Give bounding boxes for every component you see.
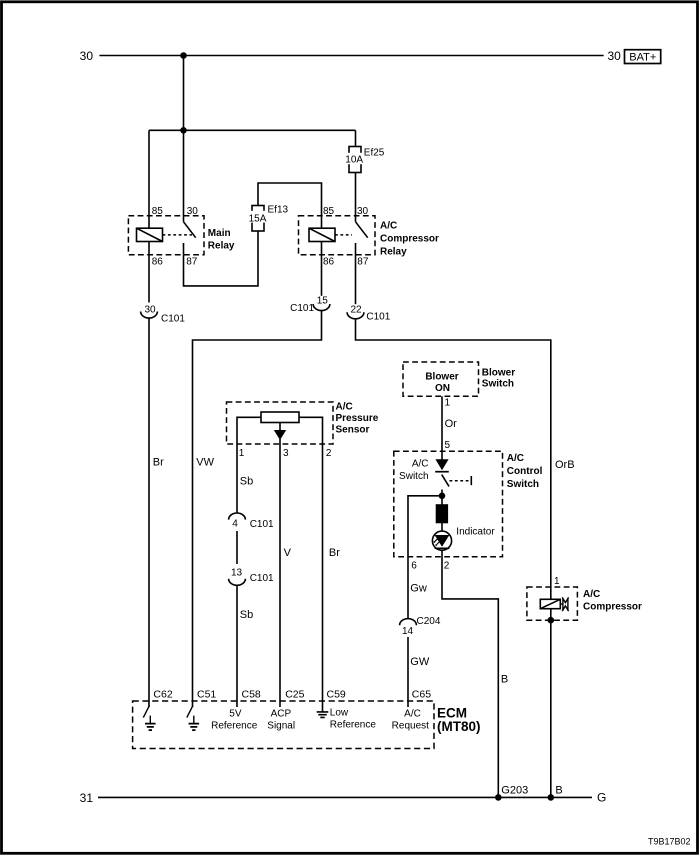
- svg-text:C101: C101: [366, 311, 390, 322]
- svg-text:3: 3: [283, 448, 289, 459]
- svg-text:GW: GW: [410, 656, 430, 668]
- relay K1 coil: [137, 228, 163, 241]
- svg-text:86: 86: [323, 256, 335, 267]
- svg-text:30: 30: [608, 49, 622, 63]
- junction at distribution node: [180, 127, 187, 134]
- svg-text:86: 86: [152, 256, 164, 267]
- svg-text:VW: VW: [196, 456, 214, 468]
- svg-text:Ef25: Ef25: [364, 147, 385, 158]
- switch S2 indicator lamp: [432, 531, 451, 550]
- wire Sb upper: [236, 444, 238, 513]
- svg-text:BAT+: BAT+: [629, 51, 656, 63]
- switch S1 Blower Switch box: [403, 362, 479, 396]
- relay K2 contact lower lead: [355, 243, 357, 255]
- svg-text:G203: G203: [501, 785, 528, 797]
- wire bus 30 to distribution node: [183, 56, 185, 131]
- connector C101 pin 15: [313, 304, 330, 311]
- svg-text:30: 30: [187, 206, 199, 217]
- sensor B1 internal wire pin 2: [299, 417, 323, 444]
- wire Or: [441, 396, 443, 451]
- svg-text:Main: Main: [208, 228, 231, 239]
- svg-text:4: 4: [232, 519, 238, 530]
- junction on bus 30: [180, 52, 187, 59]
- svg-text:C101: C101: [250, 573, 274, 584]
- svg-text:Request: Request: [392, 721, 429, 732]
- svg-text:15: 15: [317, 296, 329, 307]
- svg-text:C62: C62: [153, 688, 172, 700]
- svg-text:30: 30: [80, 49, 94, 63]
- svg-text:ACP: ACP: [271, 708, 292, 719]
- relay K1 coil to contact dashed link: [163, 234, 193, 236]
- svg-text:10A: 10A: [345, 154, 363, 165]
- svg-text:A/C: A/C: [336, 402, 353, 413]
- svg-text:1: 1: [554, 576, 560, 587]
- svg-text:1: 1: [445, 398, 451, 409]
- svg-text:Reference: Reference: [330, 719, 377, 730]
- switch S2 contact blade: [442, 475, 449, 487]
- relay K2 coil to contact dashed link: [335, 234, 352, 236]
- svg-text:Gw: Gw: [410, 582, 427, 594]
- svg-text:Blower: Blower: [425, 371, 458, 382]
- svg-text:14: 14: [402, 626, 414, 637]
- svg-text:30: 30: [357, 206, 369, 217]
- relay K2 coil: [309, 228, 335, 241]
- wire GW to ECM C65: [407, 637, 409, 707]
- motor M1 A/C Compressor box: [527, 587, 578, 620]
- wire Br sensor low reference to ECM C59: [322, 444, 324, 712]
- sensor B1 resistor element: [261, 412, 299, 423]
- svg-text:ON: ON: [435, 383, 450, 394]
- svg-text:A/C: A/C: [507, 453, 524, 464]
- svg-text:C58: C58: [242, 688, 261, 700]
- svg-text:30: 30: [144, 304, 156, 315]
- wire fuse Ef25 to A/C Compressor Relay pin 30: [355, 173, 357, 222]
- junction G203: [495, 794, 502, 801]
- connector C204 pin 14: [400, 619, 417, 626]
- wire Gw: [407, 557, 409, 619]
- svg-text:C25: C25: [285, 688, 304, 700]
- svg-text:Switch: Switch: [482, 379, 514, 390]
- relay K1 Main Relay box: [128, 216, 204, 255]
- svg-text:A/C: A/C: [583, 589, 600, 600]
- wire to Main Relay pin 85: [148, 130, 150, 228]
- junction B at bus 31: [548, 794, 555, 801]
- svg-text:Br: Br: [153, 456, 164, 468]
- wire B compressor to ground bus: [550, 620, 552, 797]
- switch S2 wire lamp to pin 2: [441, 550, 443, 557]
- svg-text:Ef13: Ef13: [268, 205, 289, 216]
- svg-text:15A: 15A: [249, 213, 267, 224]
- svg-text:Sensor: Sensor: [336, 425, 370, 436]
- svg-text:Compressor: Compressor: [380, 234, 439, 245]
- connector C101 pin 22: [347, 312, 364, 319]
- motor M1 wire through: [550, 587, 552, 620]
- wire bus 31: [98, 796, 592, 798]
- svg-text:22: 22: [350, 304, 362, 315]
- svg-text:Compressor: Compressor: [583, 602, 642, 613]
- wire VW to ECM C51: [193, 311, 322, 707]
- svg-text:Control: Control: [507, 466, 543, 477]
- sensor B1 internal wire pin 1: [237, 417, 261, 444]
- svg-text:V: V: [284, 547, 292, 559]
- svg-text:T9B17B02: T9B17B02: [648, 837, 691, 847]
- wire to Main Relay pin 30: [183, 130, 185, 222]
- switch S2 dashed actuator link: [450, 480, 470, 482]
- svg-text:87: 87: [186, 256, 198, 267]
- switch S2 junction: [439, 493, 446, 500]
- svg-text:Relay: Relay: [208, 240, 235, 251]
- svg-text:Relay: Relay: [380, 247, 407, 258]
- module ECM box: [133, 701, 434, 749]
- ECM ground at C51: [187, 706, 193, 718]
- switch S2 diode: [441, 451, 443, 460]
- wire Main Relay 86 down: [148, 255, 150, 303]
- switch S2 wire resistor to lamp: [441, 523, 443, 532]
- svg-text:Or: Or: [445, 418, 458, 430]
- relay K1 contact lower lead: [183, 243, 185, 255]
- svg-text:85: 85: [152, 206, 164, 217]
- svg-text:Signal: Signal: [267, 721, 295, 732]
- svg-text:13: 13: [231, 568, 243, 579]
- svg-text:5: 5: [445, 440, 451, 451]
- svg-text:Low: Low: [330, 707, 349, 718]
- wire fuse Ef13 to A/C Compressor Relay pin 85: [258, 183, 322, 228]
- svg-text:C204: C204: [417, 616, 441, 627]
- fuse Ef13 15A: [252, 206, 264, 232]
- wire B from switch pin 2 to ground bus: [442, 557, 498, 798]
- switch S2 wire below contact: [441, 490, 443, 506]
- relay K1 contact blade: [184, 222, 196, 238]
- svg-text:C59: C59: [327, 688, 346, 700]
- svg-text:Switch: Switch: [507, 479, 539, 490]
- node BAT+: [625, 50, 661, 64]
- svg-text:Blower: Blower: [482, 367, 515, 378]
- wire Br to ECM C62: [148, 318, 150, 707]
- motor M1 coil: [540, 599, 560, 608]
- connector C101 pin 13: [229, 579, 246, 586]
- svg-text:Sb: Sb: [240, 476, 253, 488]
- svg-text:C65: C65: [412, 688, 431, 700]
- wire Sb lower to ECM C58: [236, 585, 238, 707]
- svg-text:(MT80): (MT80): [437, 719, 481, 734]
- svg-text:2: 2: [326, 448, 332, 459]
- svg-text:Pressure: Pressure: [336, 413, 379, 424]
- motor M1 clutch symbol: [560, 603, 562, 605]
- svg-text:Indicator: Indicator: [456, 526, 495, 537]
- svg-text:A/C: A/C: [404, 708, 421, 719]
- sensor B1 wiper: [279, 423, 281, 432]
- connector C101 pin 4: [229, 513, 246, 520]
- relay K2 coil lower lead: [321, 242, 323, 255]
- svg-text:C101: C101: [250, 519, 274, 530]
- svg-text:31: 31: [80, 791, 94, 805]
- ECM ground at C62: [143, 706, 149, 718]
- svg-text:B: B: [501, 673, 508, 685]
- switch S2 branch to pin 6: [408, 496, 442, 557]
- wire Main Relay 87 to fuse Ef13: [184, 231, 259, 286]
- svg-text:C101: C101: [161, 313, 185, 324]
- motor M1 junction at box bottom: [548, 617, 555, 624]
- ECM ground at C59: [317, 712, 329, 718]
- switch S2 indicator resistor: [437, 505, 448, 523]
- fuse Ef25 10A: [349, 147, 361, 173]
- wire A/C Compressor Relay 87 down: [355, 255, 357, 304]
- svg-text:5V: 5V: [229, 708, 242, 719]
- svg-text:6: 6: [411, 560, 417, 571]
- svg-text:A/C: A/C: [380, 221, 397, 232]
- svg-text:A/C: A/C: [412, 458, 429, 469]
- relay K2 A/C Compressor Relay box: [299, 216, 376, 255]
- svg-text:Switch: Switch: [399, 471, 428, 482]
- wire A/C Compressor Relay 86 down: [321, 255, 323, 296]
- relay K1 coil lower lead: [148, 242, 150, 255]
- svg-text:C101: C101: [290, 303, 314, 314]
- wire distribution node: [149, 129, 356, 131]
- switch S2 A/C Control Switch box: [394, 451, 503, 557]
- wire Sb middle: [236, 531, 238, 564]
- connector C101 pin 30: [141, 312, 158, 319]
- svg-text:C51: C51: [197, 688, 216, 700]
- svg-text:87: 87: [357, 256, 369, 267]
- svg-text:Sb: Sb: [240, 609, 253, 621]
- wire bus 30: [99, 55, 603, 57]
- wire V to ECM C25: [279, 444, 281, 707]
- relay K2 contact blade: [356, 222, 368, 238]
- wire OrB to A/C Compressor: [356, 319, 551, 587]
- svg-text:G: G: [597, 791, 606, 805]
- svg-text:B: B: [555, 785, 562, 797]
- svg-text:2: 2: [444, 560, 450, 571]
- svg-text:OrB: OrB: [555, 459, 575, 471]
- svg-text:Br: Br: [329, 547, 340, 559]
- svg-text:1: 1: [239, 448, 245, 459]
- svg-text:85: 85: [323, 206, 335, 217]
- sensor B1 A/C Pressure Sensor box: [227, 402, 334, 444]
- wire to fuse Ef25: [355, 130, 357, 146]
- svg-text:Reference: Reference: [211, 721, 258, 732]
